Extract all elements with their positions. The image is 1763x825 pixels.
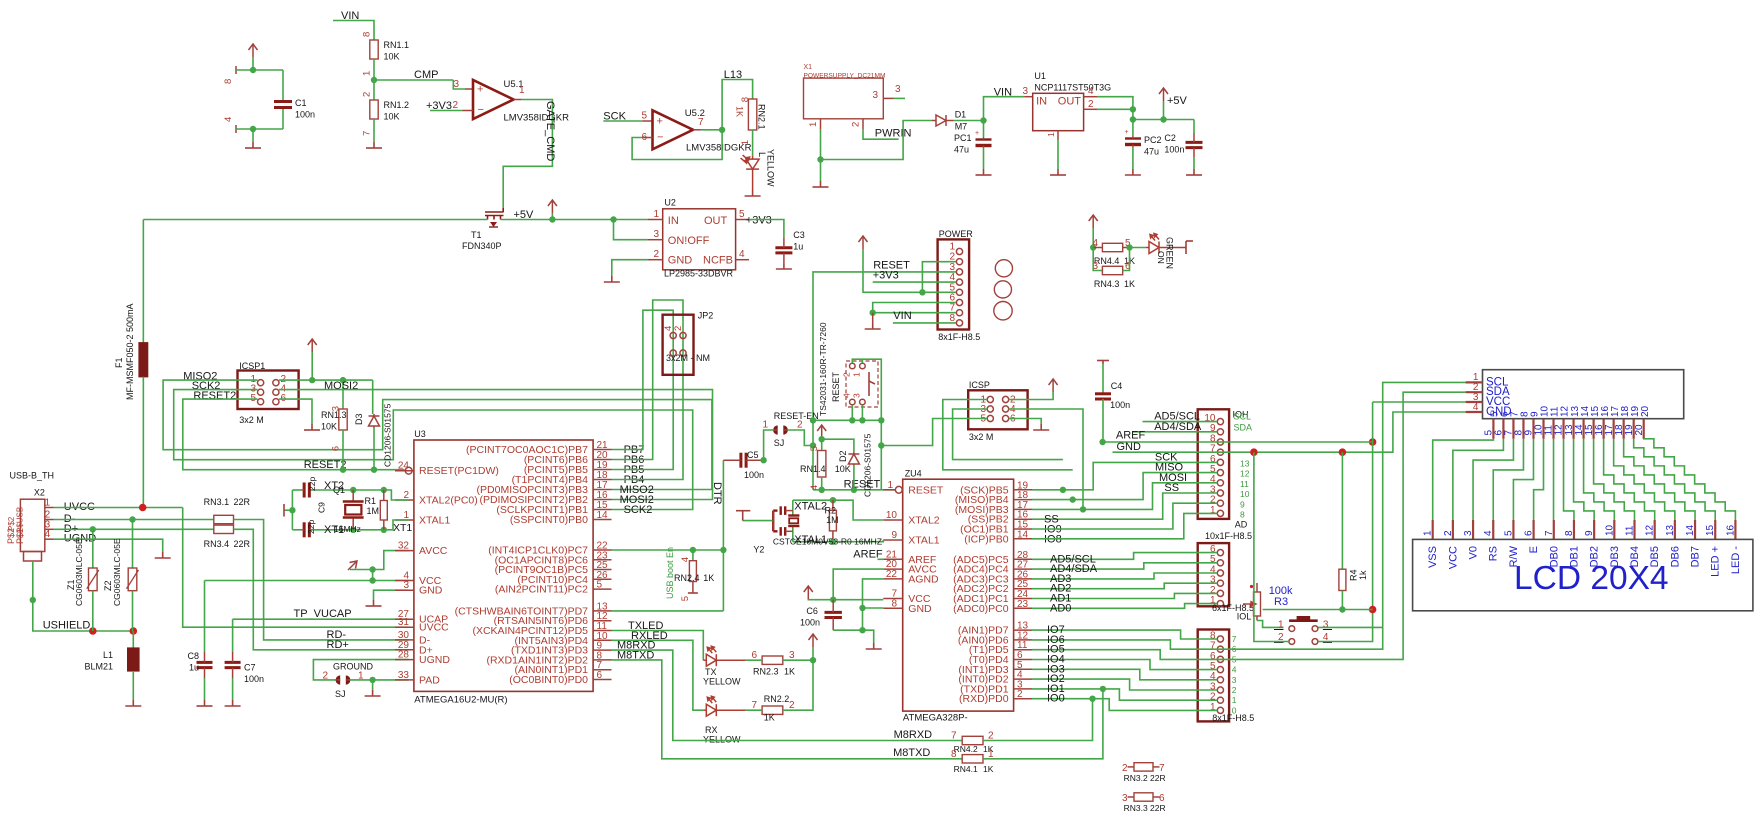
connector IOL 8x1F-H8.5 bbox=[1198, 630, 1229, 722]
wire lcd10 bbox=[1584, 439, 1615, 520]
svg-text:8x1F-H8.5: 8x1F-H8.5 bbox=[1212, 713, 1254, 723]
svg-text:1u: 1u bbox=[189, 663, 199, 673]
wire bbox=[873, 312, 956, 314]
wire bbox=[373, 80, 375, 100]
svg-text:1: 1 bbox=[762, 420, 768, 431]
wire lcd1 bbox=[1433, 439, 1494, 520]
wire MOSI2 bbox=[279, 390, 713, 500]
svg-text:1: 1 bbox=[1046, 132, 1056, 137]
svg-text:2: 2 bbox=[1232, 685, 1237, 695]
svg-text:RN3.2: RN3.2 bbox=[1124, 773, 1148, 783]
svg-text:GND: GND bbox=[908, 603, 932, 615]
wire feedback bbox=[632, 130, 722, 160]
svg-text:UVCC: UVCC bbox=[419, 622, 449, 634]
svg-text:AGND: AGND bbox=[908, 573, 939, 585]
svg-text:2: 2 bbox=[797, 420, 803, 431]
svg-text:GND: GND bbox=[419, 585, 443, 597]
svg-text:7: 7 bbox=[751, 700, 757, 711]
supply arrow bbox=[859, 236, 868, 249]
wire bbox=[430, 110, 463, 112]
svg-text:100n: 100n bbox=[1110, 400, 1130, 410]
svg-text:NCP1117ST50T3G: NCP1117ST50T3G bbox=[1034, 83, 1111, 93]
wire bbox=[954, 120, 984, 122]
svg-text:P$USB: P$USB bbox=[16, 507, 25, 533]
svg-text:USHIELD: USHIELD bbox=[43, 620, 91, 632]
svg-text:1K: 1K bbox=[983, 764, 994, 774]
wire bbox=[453, 80, 465, 89]
svg-text:1M: 1M bbox=[826, 515, 839, 525]
svg-text:RN4.2: RN4.2 bbox=[954, 744, 978, 754]
wire +5V row bbox=[279, 379, 312, 381]
supply arrow bbox=[548, 200, 557, 213]
svg-text:1: 1 bbox=[1232, 695, 1237, 705]
wire bbox=[893, 322, 956, 324]
svg-text:1M: 1M bbox=[367, 506, 380, 516]
svg-text:4: 4 bbox=[1088, 86, 1094, 97]
svg-text:LMV358IDGKR: LMV358IDGKR bbox=[504, 113, 570, 124]
svg-text:8x1F-H8.5: 8x1F-H8.5 bbox=[938, 332, 980, 342]
wire ICSP pin2 +5V bbox=[1009, 392, 1053, 400]
supply arrow bbox=[1049, 379, 1058, 392]
ground bbox=[1125, 169, 1141, 175]
ground bbox=[366, 600, 382, 606]
svg-text:13: 13 bbox=[1665, 524, 1676, 536]
svg-text:+: + bbox=[1125, 129, 1129, 136]
svg-text:7: 7 bbox=[362, 131, 373, 136]
svg-text:TS42031-160R-TR-7260: TS42031-160R-TR-7260 bbox=[818, 322, 828, 416]
svg-text:RS: RS bbox=[1488, 546, 1500, 561]
svg-text:47u: 47u bbox=[1144, 147, 1159, 157]
wire M8TXD bbox=[612, 660, 963, 759]
svg-text:XT1: XT1 bbox=[393, 522, 412, 534]
wire RESET2 loop bbox=[183, 399, 405, 470]
supply arrow bbox=[809, 634, 818, 647]
ground bbox=[225, 700, 241, 706]
svg-text:YELLOW: YELLOW bbox=[703, 677, 741, 687]
svg-text:M8TXD: M8TXD bbox=[893, 747, 930, 759]
display LCD 20X4 bbox=[1413, 539, 1753, 610]
wire RESET row bbox=[813, 489, 896, 491]
svg-text:22p: 22p bbox=[306, 520, 316, 534]
capacitor PC2 bbox=[1132, 120, 1134, 137]
gnd stub bbox=[736, 510, 750, 512]
wire AD5/SCL bbox=[1032, 553, 1217, 560]
svg-text:C3: C3 bbox=[793, 230, 805, 240]
diode D2 bbox=[848, 452, 859, 465]
wire bbox=[350, 679, 409, 681]
svg-text:AVCC: AVCC bbox=[419, 545, 448, 557]
svg-text:UGND: UGND bbox=[419, 654, 450, 666]
svg-text:1: 1 bbox=[1423, 530, 1434, 536]
svg-text:3: 3 bbox=[789, 650, 795, 661]
svg-text:PC2: PC2 bbox=[1144, 135, 1162, 145]
svg-text:PC1: PC1 bbox=[954, 133, 972, 143]
LED ON green bbox=[1146, 234, 1186, 254]
wire bbox=[614, 220, 649, 240]
wire bbox=[372, 680, 374, 690]
svg-text:4: 4 bbox=[223, 117, 234, 122]
wire bbox=[282, 70, 284, 102]
wire AREF bbox=[878, 558, 884, 560]
svg-text:AREF: AREF bbox=[853, 549, 883, 561]
ground bbox=[365, 690, 381, 696]
svg-text:22R: 22R bbox=[1150, 773, 1166, 783]
ground bbox=[1033, 424, 1049, 430]
resistor RN3.1 bbox=[214, 515, 234, 523]
svg-text:1K: 1K bbox=[703, 573, 714, 583]
svg-text:GROUND: GROUND bbox=[333, 662, 373, 672]
svg-text:RESET: RESET bbox=[908, 484, 944, 496]
wire bbox=[851, 405, 853, 421]
svg-text:6: 6 bbox=[751, 650, 757, 661]
capacitor C3 bbox=[775, 248, 792, 253]
wire bbox=[183, 508, 409, 628]
wire ICSP pin6 gnd bbox=[1009, 419, 1041, 425]
ground bbox=[252, 129, 254, 142]
svg-text:ZU4: ZU4 bbox=[905, 469, 922, 479]
svg-text:L: L bbox=[757, 152, 767, 157]
wire bbox=[983, 148, 985, 169]
wire UGND bbox=[54, 539, 163, 552]
wire bbox=[813, 272, 956, 420]
svg-text:C6: C6 bbox=[806, 606, 818, 616]
capacitor PC1 bbox=[983, 121, 985, 138]
svg-text:10: 10 bbox=[1604, 524, 1615, 536]
ground bbox=[866, 643, 882, 649]
ground bbox=[976, 169, 992, 175]
wire lcd15 bbox=[1634, 439, 1716, 520]
svg-text:TX: TX bbox=[705, 667, 717, 677]
svg-text:T1: T1 bbox=[471, 230, 482, 240]
wire bbox=[612, 631, 704, 661]
svg-text:16MHz: 16MHz bbox=[334, 524, 361, 534]
ground bbox=[745, 190, 761, 196]
svg-text:RN4.1: RN4.1 bbox=[954, 764, 978, 774]
svg-text:7: 7 bbox=[1232, 634, 1237, 644]
mounting holes bbox=[995, 260, 1012, 277]
svg-text:7: 7 bbox=[1544, 530, 1555, 536]
svg-text:RX: RX bbox=[705, 725, 718, 735]
wire bbox=[284, 509, 292, 511]
svg-text:RESET(PC1DW): RESET(PC1DW) bbox=[419, 465, 499, 477]
svg-text:CG0603MLC-05E: CG0603MLC-05E bbox=[112, 538, 122, 606]
capacitor C6 bbox=[825, 612, 842, 617]
resistor R2 bbox=[832, 500, 834, 510]
svg-text:RN4.3: RN4.3 bbox=[1094, 279, 1120, 289]
svg-text:D3: D3 bbox=[354, 413, 364, 425]
wire lcd4 bbox=[1493, 439, 1523, 520]
ground bbox=[813, 181, 829, 187]
wire bbox=[350, 569, 373, 571]
wire PC7 bbox=[612, 549, 724, 551]
wire VCC bbox=[205, 580, 409, 582]
pushbutton S1 bbox=[1289, 617, 1318, 620]
ground bbox=[366, 142, 382, 148]
wire bbox=[820, 160, 822, 182]
svg-text:9: 9 bbox=[1240, 499, 1245, 509]
svg-text:Y2: Y2 bbox=[753, 545, 764, 555]
wire bbox=[142, 377, 144, 508]
svg-text:11: 11 bbox=[1625, 525, 1636, 536]
svg-text:M7: M7 bbox=[955, 122, 968, 132]
wire bbox=[384, 520, 409, 530]
wire +5V rail bbox=[143, 219, 487, 221]
svg-text:2: 2 bbox=[1088, 99, 1094, 110]
svg-text:4: 4 bbox=[739, 249, 745, 260]
svg-text:VIN: VIN bbox=[893, 310, 911, 322]
svg-text:SJ: SJ bbox=[774, 438, 785, 448]
wire AD0 bbox=[1032, 604, 1217, 609]
wire ICSP SCK pin3 bbox=[953, 409, 1063, 460]
wire bbox=[760, 457, 766, 463]
svg-text:3: 3 bbox=[1323, 619, 1329, 630]
wire ICSP RESET pin5 bbox=[881, 419, 987, 446]
svg-text:CG0603MLC-05E: CG0603MLC-05E bbox=[74, 538, 84, 606]
wire bbox=[822, 439, 854, 452]
svg-text:+3V3: +3V3 bbox=[746, 215, 772, 227]
wire bbox=[612, 260, 648, 276]
wire bbox=[749, 220, 784, 238]
wire +5V bbox=[863, 249, 956, 292]
wire IO3 bbox=[1032, 669, 1217, 680]
wire bbox=[236, 69, 283, 71]
svg-text:(AIN2PCINT11)PC2: (AIN2PCINT11)PC2 bbox=[495, 584, 588, 596]
wire VCC riser bbox=[1373, 401, 1466, 403]
svg-text:DTR: DTR bbox=[711, 482, 723, 505]
wire IO2 bbox=[1032, 679, 1217, 690]
wire bbox=[1263, 609, 1373, 611]
svg-text:10K: 10K bbox=[321, 422, 337, 432]
svg-text:1K: 1K bbox=[784, 667, 795, 677]
svg-text:100n: 100n bbox=[1164, 145, 1184, 155]
svg-text:USB-B_TH: USB-B_TH bbox=[10, 471, 55, 481]
wire bbox=[788, 430, 814, 446]
svg-text:Q1: Q1 bbox=[333, 485, 345, 495]
svg-text:C7: C7 bbox=[244, 663, 256, 673]
svg-text:VCC: VCC bbox=[1447, 546, 1459, 569]
svg-text:1K: 1K bbox=[1124, 279, 1135, 289]
wire IO1 bbox=[1032, 689, 1217, 700]
ground bbox=[304, 424, 320, 430]
svg-text:BLM21: BLM21 bbox=[84, 662, 113, 672]
wire ICSP MISO pin1 bbox=[943, 400, 1073, 470]
svg-text:RD+: RD+ bbox=[327, 639, 349, 651]
wire PB7 bbox=[612, 310, 674, 469]
svg-text:RN1.2: RN1.2 bbox=[384, 100, 410, 110]
wire bbox=[812, 446, 814, 490]
svg-text:AD: AD bbox=[1235, 520, 1248, 530]
svg-text:PAD: PAD bbox=[419, 674, 440, 686]
wire M8RXD bbox=[612, 650, 963, 740]
svg-text:AD0: AD0 bbox=[1050, 602, 1071, 614]
wire SCK2 loop bbox=[174, 390, 693, 510]
wire IO4 bbox=[1032, 660, 1217, 670]
svg-text:8: 8 bbox=[951, 749, 957, 760]
svg-text:(RXD)PD0: (RXD)PD0 bbox=[959, 693, 1009, 705]
wire D- bbox=[54, 519, 214, 521]
wire bbox=[1097, 97, 1133, 120]
svg-text:RN2.2: RN2.2 bbox=[764, 694, 790, 704]
wire bbox=[252, 57, 254, 70]
svg-text:AREF: AREF bbox=[1116, 429, 1146, 441]
wire bbox=[722, 80, 753, 130]
wire AD3 bbox=[1032, 573, 1217, 579]
svg-text:U3: U3 bbox=[414, 429, 426, 439]
fuse F1 bbox=[142, 220, 144, 343]
svg-text:14: 14 bbox=[1685, 524, 1696, 536]
svg-text:XTAL1: XTAL1 bbox=[419, 515, 450, 527]
wire button gnd bbox=[1254, 452, 1289, 641]
svg-text:20: 20 bbox=[1640, 405, 1651, 417]
ground bbox=[1186, 169, 1202, 175]
LED L yellow bbox=[741, 155, 760, 190]
svg-text:RN2.4: RN2.4 bbox=[674, 573, 700, 583]
svg-text:+: + bbox=[975, 130, 979, 137]
wire +5V rail bbox=[1133, 119, 1194, 121]
svg-text:−: − bbox=[657, 132, 663, 144]
wire bbox=[745, 659, 762, 661]
resistor R4 bbox=[1341, 452, 1343, 569]
wire XTAL2 row bbox=[292, 489, 302, 491]
svg-text:F1: F1 bbox=[114, 357, 124, 368]
svg-text:D1: D1 bbox=[955, 110, 967, 120]
wire bbox=[384, 490, 409, 500]
svg-text:2: 2 bbox=[789, 700, 795, 711]
svg-text:V0: V0 bbox=[1468, 546, 1480, 559]
wire XTAL1 row bbox=[292, 529, 302, 531]
svg-text:XTAL2: XTAL2 bbox=[908, 515, 939, 527]
svg-text:L1: L1 bbox=[103, 650, 113, 660]
svg-text:YELLOW: YELLOW bbox=[703, 735, 741, 745]
varistor Z1 bbox=[92, 529, 94, 568]
svg-text:2: 2 bbox=[452, 100, 458, 111]
svg-text:8: 8 bbox=[1240, 510, 1245, 520]
svg-text:CD1206-S01575: CD1206-S01575 bbox=[383, 403, 393, 467]
svg-text:PWRIN: PWRIN bbox=[875, 128, 912, 140]
wire GND3 bbox=[374, 590, 409, 600]
wire IO0 bbox=[1032, 699, 1217, 711]
wire bbox=[863, 129, 899, 139]
svg-text:C5: C5 bbox=[747, 450, 759, 460]
wire bbox=[333, 21, 374, 41]
svg-text:1: 1 bbox=[808, 122, 819, 127]
wire VCC7 bbox=[814, 599, 884, 601]
wire IO7 bbox=[1032, 630, 1217, 639]
inductor L1 BLM21 bbox=[132, 631, 134, 648]
svg-text:2: 2 bbox=[362, 92, 373, 97]
wire bbox=[1130, 247, 1147, 249]
svg-text:3: 3 bbox=[1232, 675, 1237, 685]
wire bbox=[1057, 140, 1059, 169]
svg-text:3: 3 bbox=[653, 229, 659, 240]
svg-text:3: 3 bbox=[1022, 86, 1028, 97]
LCD pin stubs bbox=[1432, 520, 1434, 539]
wire bbox=[373, 119, 375, 142]
wire AGND bbox=[863, 579, 884, 630]
svg-text:MF-MSMF050-2 500mA: MF-MSMF050-2 500mA bbox=[125, 303, 135, 400]
net GATE_CMD bbox=[503, 100, 552, 209]
wire lcd8 bbox=[1564, 439, 1574, 520]
resonator Y2 CSTCE16M0V53 bbox=[792, 500, 794, 515]
wire lcd7 bbox=[1553, 439, 1555, 520]
svg-text:ATMEGA328P-: ATMEGA328P- bbox=[903, 713, 968, 724]
svg-text:1K: 1K bbox=[764, 713, 775, 723]
capacitor C2 bbox=[1193, 120, 1195, 134]
wire RESET col bbox=[812, 420, 814, 445]
connector LCD adapter 20-pin bbox=[1483, 370, 1684, 419]
svg-text:JP2: JP2 bbox=[698, 311, 714, 321]
wire bbox=[1032, 473, 1217, 500]
svg-text:SDA: SDA bbox=[1234, 423, 1253, 433]
wire AVCC bbox=[373, 551, 409, 570]
wire bbox=[612, 640, 704, 710]
svg-text:10x1F-H8.5: 10x1F-H8.5 bbox=[1205, 531, 1252, 541]
ground bbox=[1050, 169, 1066, 175]
svg-text:5: 5 bbox=[1503, 530, 1514, 536]
wire GND bbox=[873, 303, 956, 313]
svg-text:16: 16 bbox=[1725, 524, 1736, 536]
wire bbox=[701, 129, 722, 131]
wire bbox=[833, 630, 874, 643]
connector AD 6x1F-H8.5 bbox=[1198, 543, 1229, 606]
op-amp U5.1 bbox=[473, 80, 514, 119]
svg-text:XTAL2(PC0): XTAL2(PC0) bbox=[419, 495, 478, 507]
svg-text:10: 10 bbox=[1240, 489, 1250, 499]
diode D3 bbox=[372, 380, 374, 414]
svg-text:1: 1 bbox=[740, 140, 751, 145]
svg-text:U1: U1 bbox=[1034, 71, 1046, 81]
wire XTAL2 net bbox=[793, 500, 884, 520]
svg-text:(OC0BINT0)PD0: (OC0BINT0)PD0 bbox=[509, 674, 588, 686]
svg-text:CD1206-S01575: CD1206-S01575 bbox=[863, 433, 873, 497]
svg-text:RN1.1: RN1.1 bbox=[384, 40, 410, 50]
supply arrow AVCC bbox=[348, 561, 357, 570]
capacitor C8 bbox=[204, 581, 206, 653]
varistor Z2 bbox=[132, 520, 134, 569]
ground bbox=[125, 700, 141, 706]
svg-text:10K: 10K bbox=[835, 464, 851, 474]
svg-text:IN: IN bbox=[668, 215, 679, 227]
svg-text:+5V: +5V bbox=[1167, 95, 1188, 107]
svg-text:4: 4 bbox=[1232, 665, 1237, 675]
wire ICSP MOSI pin4 bbox=[1009, 409, 1083, 509]
svg-text:2: 2 bbox=[851, 122, 862, 127]
diode D1 bbox=[932, 115, 954, 126]
wire lcd5 bbox=[1513, 439, 1533, 520]
svg-text:2: 2 bbox=[322, 671, 328, 682]
wire IO6 bbox=[1032, 382, 1466, 649]
svg-text:X1: X1 bbox=[804, 64, 813, 71]
svg-text:1K: 1K bbox=[735, 106, 745, 117]
wire ICSP1 pin6 gnd bbox=[279, 399, 312, 424]
svg-text:RN1.4: RN1.4 bbox=[800, 464, 826, 474]
svg-text:22R: 22R bbox=[1150, 803, 1166, 813]
svg-text:3: 3 bbox=[852, 393, 862, 398]
wire bbox=[33, 561, 134, 631]
svg-text:SJ: SJ bbox=[335, 689, 346, 699]
svg-text:ON: ON bbox=[1156, 251, 1166, 264]
wire bbox=[1102, 399, 1104, 439]
svg-text:13: 13 bbox=[1240, 459, 1250, 469]
wire lcd3 bbox=[1473, 439, 1513, 520]
svg-text:6: 6 bbox=[1524, 530, 1535, 536]
supply arrow bbox=[804, 586, 813, 599]
svg-text:1: 1 bbox=[653, 209, 659, 220]
wire lcd14 bbox=[1624, 439, 1695, 520]
wire UVCC bbox=[54, 507, 183, 509]
wire MISO2 loop bbox=[163, 380, 712, 489]
wire D+ bbox=[54, 528, 214, 530]
